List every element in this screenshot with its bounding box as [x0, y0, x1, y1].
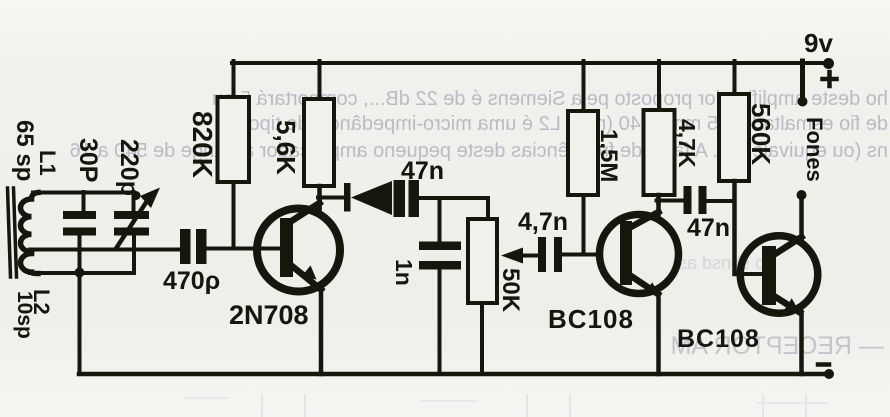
svg-text:1n: 1n	[391, 259, 417, 286]
potentiometer 50K	[468, 219, 497, 303]
svg-text:47n: 47n	[687, 214, 730, 242]
svg-text:4,7n: 4,7n	[518, 208, 568, 236]
wire collector node to diode	[318, 196, 345, 200]
inductor L1	[20, 193, 38, 252]
diode D1	[344, 183, 351, 212]
resistor R 1,5M	[568, 111, 598, 195]
capacitor C 47n second	[684, 186, 692, 214]
wire Q1 collector up	[317, 198, 322, 211]
plus sign	[823, 72, 837, 86]
svg-text:50K: 50K	[497, 268, 524, 313]
svg-text:820K: 820K	[187, 111, 218, 178]
capacitor C 4,7n	[538, 237, 546, 272]
wire tank bottom	[30, 271, 134, 275]
transistor Q2 BC108	[600, 215, 679, 294]
wire Q2 emitter down to rail	[656, 295, 661, 374]
wire 4,7n to base Q2	[562, 253, 600, 257]
node phones + terminal	[798, 97, 808, 107]
wire bottom ground rail	[79, 372, 829, 377]
svg-text:470ρ: 470ρ	[163, 267, 220, 295]
bleed table marks bottom	[185, 394, 828, 417]
svg-text:47n: 47n	[401, 157, 444, 185]
wire ground drop from tank	[78, 272, 82, 374]
wire 1,5M top stub	[582, 61, 586, 111]
wire 5,6K bottom to collector node	[317, 186, 322, 208]
resistor R 560K	[719, 94, 749, 181]
svg-text:2N708: 2N708	[229, 300, 309, 330]
svg-text:220p: 220p	[115, 139, 143, 196]
svg-text:9v: 9v	[804, 28, 833, 58]
wire 560K bottom down to base of Q3	[732, 181, 737, 274]
capacitor trimmer 220p	[132, 192, 136, 211]
schematic ink	[8, 58, 837, 379]
svg-text:30P: 30P	[74, 138, 102, 182]
svg-text:560K: 560K	[746, 103, 776, 165]
wire Q3 emitter down to rail	[799, 312, 804, 374]
capacitor C 47n	[394, 180, 406, 217]
wire phones + terminal stub	[800, 61, 805, 100]
wire 5,6K top stub	[318, 61, 322, 99]
resistor R 4,7K	[644, 110, 675, 195]
resistor R 820K	[218, 97, 250, 182]
wire Q1 emitter down to rail	[319, 288, 324, 374]
minus sign	[818, 362, 829, 367]
svg-text:BC108: BC108	[548, 304, 634, 334]
node rail end 9v	[823, 58, 834, 69]
wire 1,5M bottom to base wire	[582, 195, 586, 255]
wire 47n to pot	[419, 198, 488, 219]
wire 820K bottom to base node	[232, 182, 236, 248]
wire collector node Q2 to 47n	[657, 199, 685, 203]
svg-text:5,6K: 5,6K	[271, 120, 301, 175]
wire top supply rail	[232, 61, 830, 65]
pot wiper arrow	[520, 254, 538, 258]
wire coil tap to 470p	[30, 248, 180, 252]
wire 820K top stub	[232, 61, 236, 97]
wire Q3 collector up to phones terminal	[799, 197, 804, 238]
svg-text:10sp: 10sp	[13, 291, 36, 339]
transistor Q3 BC108	[740, 236, 818, 314]
capacitor C 30P	[82, 192, 86, 211]
svg-text:BC108: BC108	[677, 325, 760, 353]
wire Q2 collector up	[656, 200, 661, 216]
capacitor C 1n	[438, 198, 442, 242]
wire tank top	[33, 191, 133, 195]
inductor L2	[20, 254, 38, 274]
svg-text:1,5M: 1,5M	[595, 129, 622, 182]
wire 4,7K top stub	[657, 61, 661, 110]
svg-text:65 sp: 65 sp	[11, 120, 38, 181]
ferrite core L1/L2	[8, 188, 11, 277]
svg-text:4,7K: 4,7K	[674, 119, 700, 168]
node rail end minus	[824, 369, 834, 379]
bleed-through mirrored text from page back	[70, 88, 888, 360]
trimmer arrow	[116, 201, 147, 249]
wire 560K top stub	[733, 61, 737, 94]
node tank bottom junction	[75, 268, 85, 278]
node phones bottom terminal	[797, 190, 807, 200]
wire 4,7K bottom to collector node	[656, 195, 661, 202]
transistor Q1 2N708	[257, 209, 340, 292]
svg-text:Fones: Fones	[802, 117, 827, 182]
capacitor C 470p	[180, 229, 191, 264]
wire 470p to base Q1	[207, 247, 281, 251]
wire base Q3	[735, 272, 764, 276]
resistor R 5,6K	[304, 99, 334, 186]
wire 47n to 560K vertical	[707, 199, 735, 203]
svg-text:ab sbnsd as: ab sbnsd as	[678, 253, 775, 273]
